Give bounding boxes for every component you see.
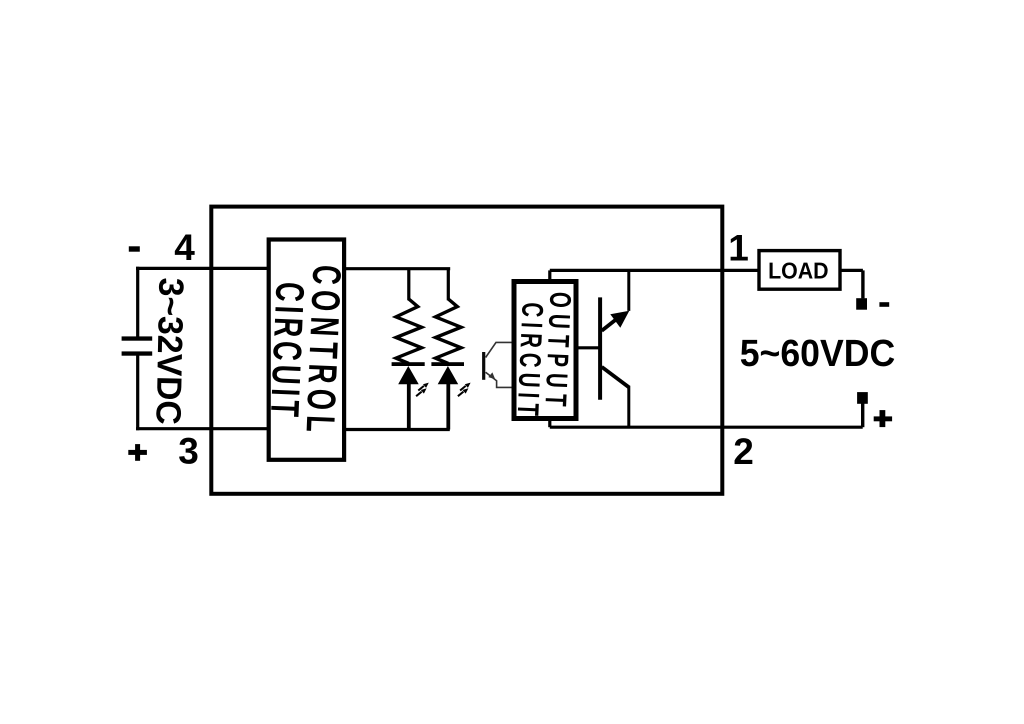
- input minus polarity sign: [129, 246, 140, 251]
- svg-text:5~60VDC: 5~60VDC: [740, 333, 896, 375]
- control circuit block U1: [269, 240, 344, 460]
- wire: bottom rail control-to-leds: [345, 428, 450, 431]
- phototransistor Q1 base bar: [482, 352, 485, 380]
- input plus polarity sign: [128, 444, 147, 461]
- led D2 triangle: [438, 366, 459, 384]
- output voltage label 5~60VDC: [740, 333, 896, 375]
- input voltage label 3~32VDC: [148, 277, 190, 425]
- output minus polarity sign: [879, 302, 889, 307]
- svg-text:4: 4: [174, 227, 195, 268]
- pin 4 label: [174, 227, 195, 268]
- wire: input source vertical (upper): [136, 267, 139, 338]
- minus terminal square: [856, 298, 867, 310]
- led D2 cathode bar: [431, 362, 464, 366]
- output plus polarity sign: [874, 410, 892, 427]
- wire: resistor R2 top lead: [447, 269, 450, 301]
- wire: minus terminal drop: [861, 270, 864, 298]
- led D2 light emission arrows: [458, 383, 471, 397]
- svg-text:CIRCUIT: CIRCUIT: [262, 281, 312, 422]
- wire: phototransistor collector lead: [486, 342, 512, 357]
- wire: phototransistor emitter lead: [486, 372, 512, 387]
- transistor Q2 collector diagonal: [602, 315, 622, 331]
- led D1 triangle: [398, 366, 419, 384]
- output circuit label: [510, 291, 576, 421]
- wire: transistor Q2 emitter drop: [627, 386, 630, 428]
- wire: plus terminal drop: [861, 404, 864, 428]
- plus terminal square: [857, 392, 868, 404]
- svg-text:3: 3: [178, 430, 199, 471]
- led D1 light emission arrows: [416, 383, 429, 397]
- pin 3 label: [178, 430, 199, 471]
- wire: top rail output-to-pin1-load: [550, 269, 759, 272]
- wire: pin 3 input lead: [136, 427, 271, 430]
- control circuit label: [262, 264, 349, 438]
- svg-text:3~32VDC: 3~32VDC: [148, 277, 190, 425]
- wire: load right lead: [840, 269, 863, 272]
- wire: pin 4 input lead: [136, 267, 271, 270]
- wire: output circuit bottom stub: [548, 419, 551, 427]
- capacitor C1 input source plates: [122, 336, 153, 355]
- transistor Q2 emitter diagonal: [602, 367, 629, 387]
- resistor R1: [396, 299, 422, 364]
- wire: input source vertical (lower): [136, 355, 139, 431]
- svg-text:CIRCUIT: CIRCUIT: [510, 302, 548, 422]
- phototransistor Q1 emitter arrowhead: [488, 372, 495, 379]
- resistor R2: [436, 299, 462, 364]
- transistor Q2 arrowhead: [610, 311, 629, 328]
- SSR body outline: [211, 207, 722, 494]
- pin 1 label: [728, 228, 749, 269]
- wire: led D1 bottom lead: [407, 384, 411, 430]
- wire: output circuit top stub: [548, 270, 551, 282]
- wire: transistor Q2 base lead: [578, 346, 602, 349]
- pin 2 label: [733, 431, 754, 472]
- wire: resistor R1 top lead: [407, 269, 410, 301]
- wire: led D2 bottom lead: [446, 384, 450, 430]
- wire: top rail control-to-resistors: [345, 267, 450, 270]
- svg-text:1: 1: [728, 228, 749, 269]
- svg-text:2: 2: [733, 431, 754, 472]
- led D1 cathode bar: [392, 362, 425, 366]
- svg-text:LOAD: LOAD: [768, 258, 829, 284]
- wire: bottom rail pin2: [550, 426, 863, 429]
- load box: [759, 251, 840, 290]
- output circuit block U2: [514, 282, 576, 419]
- wire: transistor Q2 collector drop: [627, 270, 630, 311]
- load label: [768, 258, 829, 284]
- transistor Q2 base bar: [598, 297, 602, 399]
